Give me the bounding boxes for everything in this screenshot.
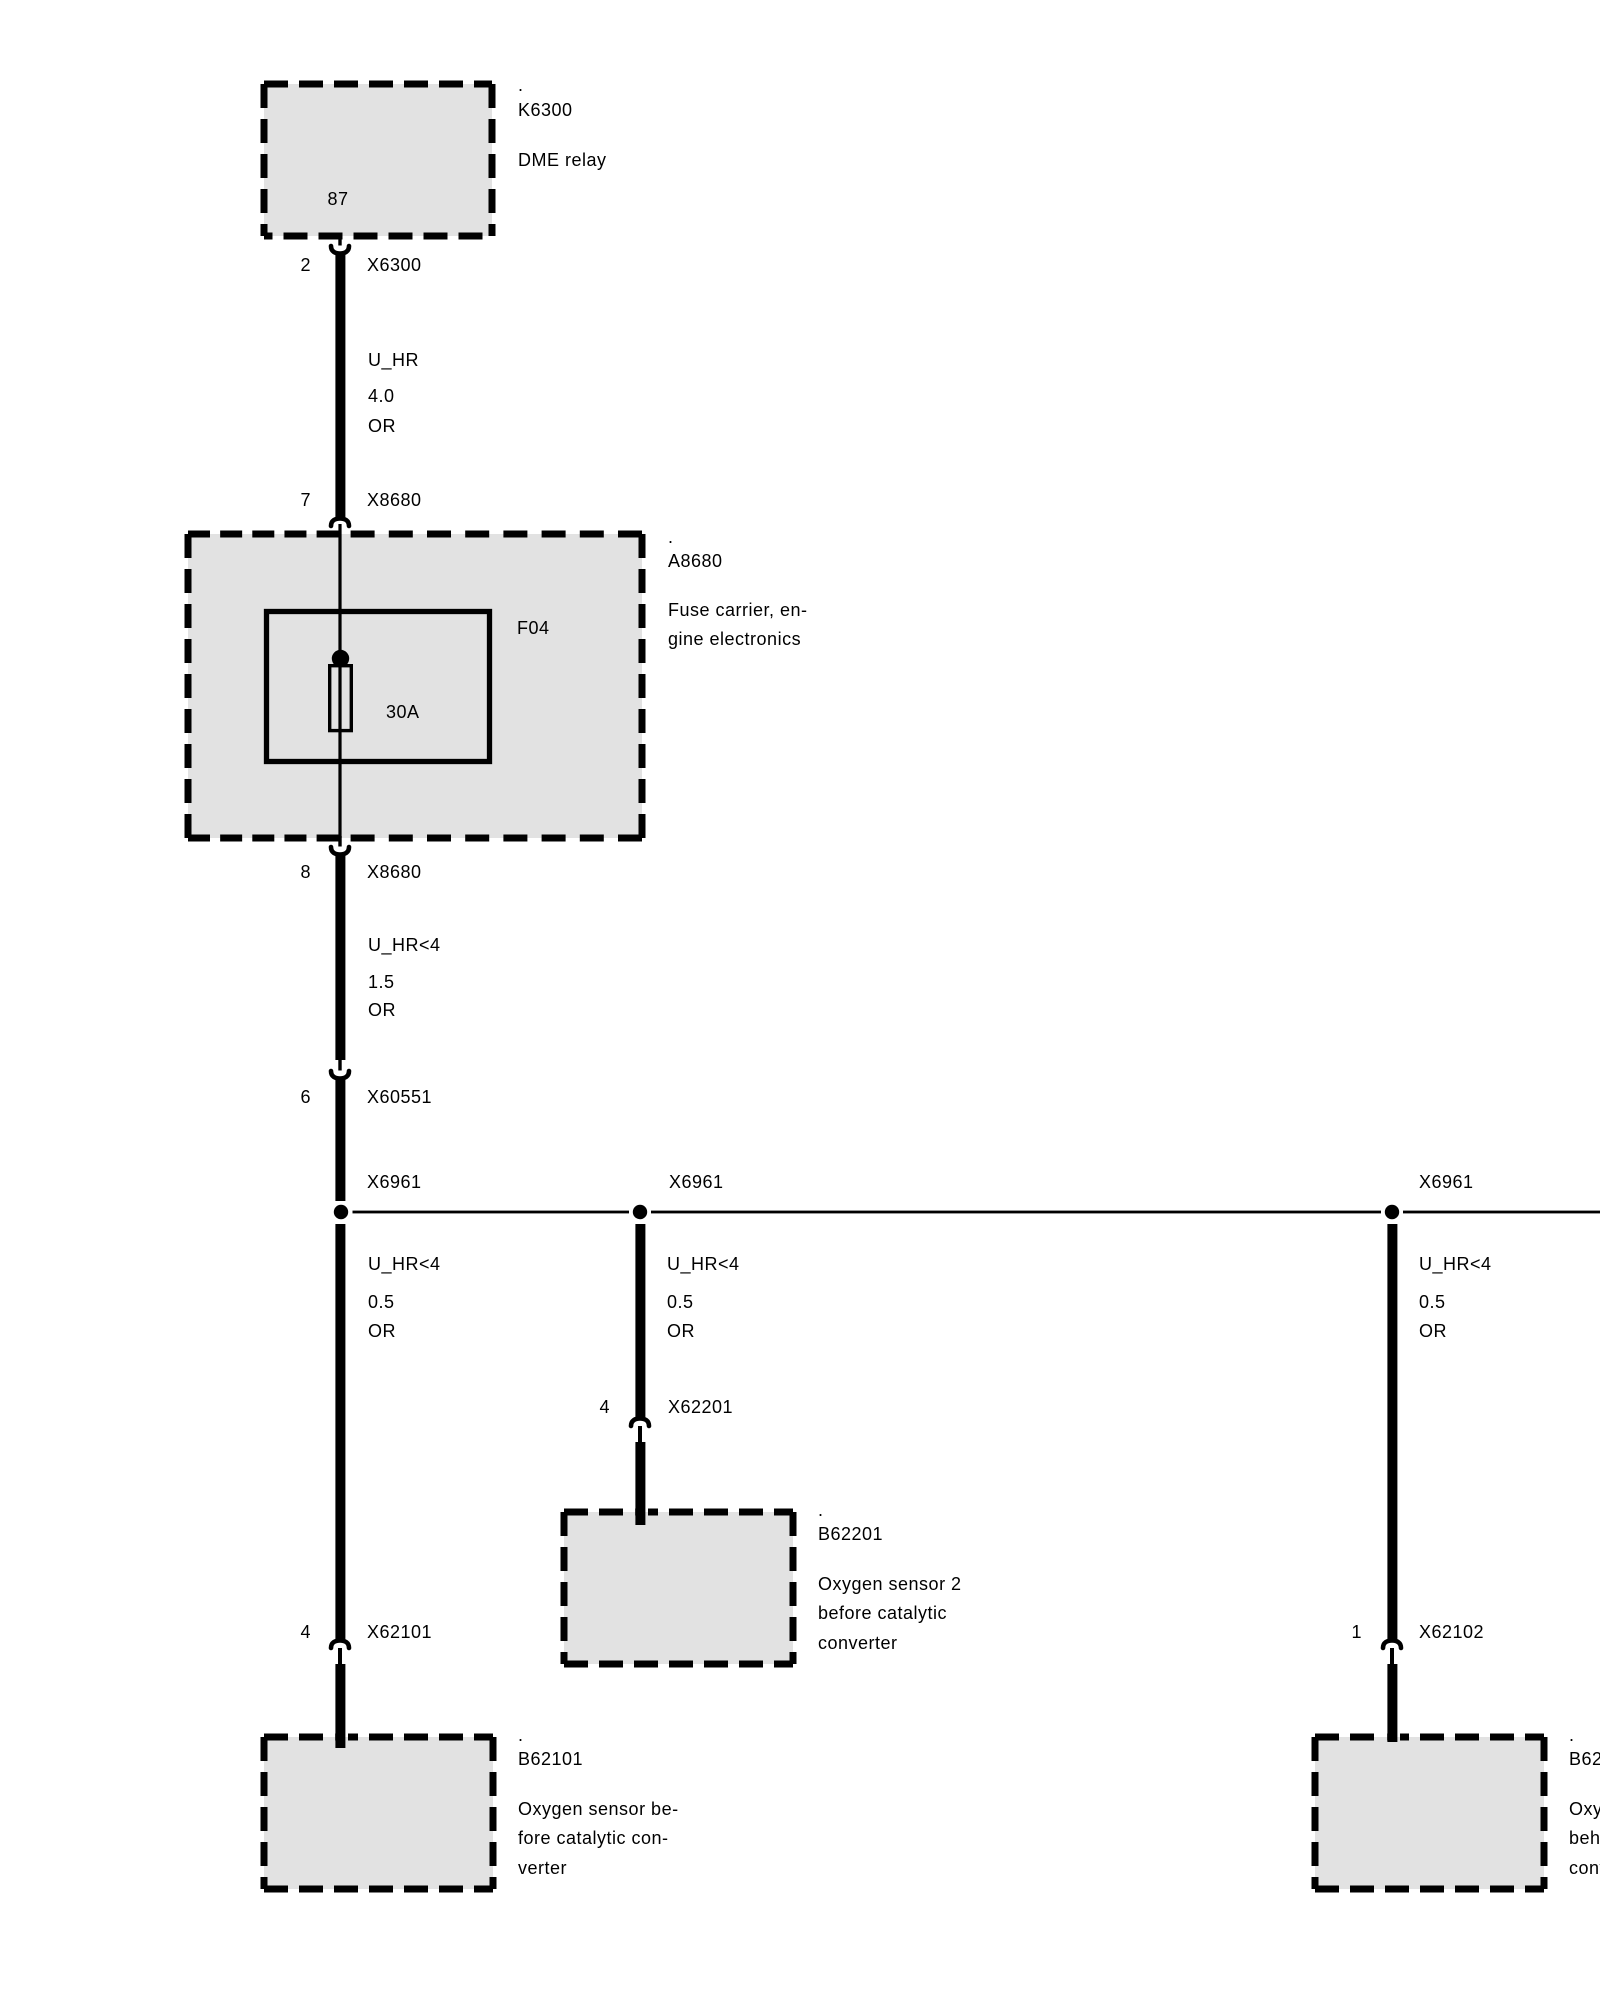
wire label right U_HR<4 [1419,1254,1492,1341]
border gap at X62201 wire [632,1509,635,1513]
svg-text:converter: converter [818,1633,898,1653]
B62102 label [1569,1725,1600,1878]
svg-text:87: 87 [327,189,348,209]
wire right branch U_HR<4 0.5 OR [1387,1224,1397,1641]
svg-text:X8680: X8680 [367,490,422,510]
fuse F04 element [330,650,352,731]
svg-text:30A: 30A [386,702,420,722]
connector X60551 pin 6 stub [338,1060,341,1071]
svg-text:gine electronics: gine electronics [668,629,801,649]
svg-text:B62201: B62201 [818,1524,883,1544]
connector X8680 pin 7 [331,519,349,527]
svg-text:4: 4 [300,1622,311,1642]
relay K6300 box [264,84,492,236]
wire label U_HR<4 [368,935,441,1020]
svg-text:X6961: X6961 [367,1172,422,1192]
border gap at X62102 wire [1384,1734,1387,1738]
wire stub into B62101 [335,1664,345,1748]
svg-text:X6961: X6961 [669,1172,724,1192]
wire stub into B62102 [1387,1664,1397,1742]
svg-text:before catalytic: before catalytic [818,1603,947,1623]
connector X6300 pin 2 [331,246,349,254]
connector X62102 neck [1390,1648,1394,1664]
svg-text:OR: OR [368,416,396,436]
svg-text:X6961: X6961 [1419,1172,1474,1192]
B62101 label [518,1725,679,1878]
wire U_HR 4.0 OR [335,253,345,519]
svg-text:behind catalytic: behind catalytic [1569,1828,1600,1848]
svg-text:.: . [518,1725,524,1745]
connector X6300 pin 2 stub [338,236,341,246]
svg-text:OR: OR [368,1000,396,1020]
wire label left U_HR<4 [368,1254,441,1341]
svg-text:U_HR<4: U_HR<4 [368,935,441,956]
connector X62101 pin 4 [331,1641,349,1649]
wire label middle U_HR<4 [667,1254,740,1341]
svg-text:Oxygen sensor: Oxygen sensor [1569,1799,1600,1819]
A8680 label [668,527,808,649]
svg-text:X6300: X6300 [367,255,422,275]
connector X8680 pin 8 stub [338,836,341,847]
wire bus X6961 horizontal segment 2 [651,1211,1381,1214]
svg-text:6: 6 [300,1087,311,1107]
svg-text:0.5: 0.5 [1419,1292,1446,1312]
connector X62102 pin 1 [1383,1641,1401,1649]
oxygen sensor B62201 box [564,1509,793,1665]
svg-text:X62102: X62102 [1419,1622,1484,1642]
svg-text:8: 8 [300,862,311,882]
oxygen sensor B62101 box [264,1734,493,1890]
svg-text:K6300: K6300 [518,100,573,120]
wire bus X6961 horizontal segment 1 [353,1211,630,1214]
svg-text:converter: converter [1569,1858,1600,1878]
svg-text:4.0: 4.0 [368,386,395,406]
node K6300 label [518,75,607,170]
svg-text:X62201: X62201 [668,1397,733,1417]
svg-text:B62102: B62102 [1569,1749,1600,1769]
svg-text:.: . [818,1500,824,1520]
svg-text:7: 7 [300,490,311,510]
svg-text:4: 4 [599,1397,610,1417]
svg-text:.: . [668,527,674,547]
wire thin through fuse [338,524,341,838]
svg-text:fore catalytic con-: fore catalytic con- [518,1828,669,1848]
node X6961 junction dot left [334,1205,348,1219]
svg-text:Oxygen sensor be-: Oxygen sensor be- [518,1799,679,1819]
svg-text:0.5: 0.5 [368,1292,395,1312]
svg-text:X8680: X8680 [367,862,422,882]
svg-text:B62101: B62101 [518,1749,583,1769]
oxygen sensor B62102 box [1315,1734,1544,1890]
svg-text:U_HR<4: U_HR<4 [1419,1254,1492,1275]
svg-text:Oxygen sensor 2: Oxygen sensor 2 [818,1574,962,1594]
svg-text:X62101: X62101 [367,1622,432,1642]
wire middle branch U_HR<4 0.5 OR [635,1224,645,1419]
svg-text:OR: OR [1419,1321,1447,1341]
node X6961 junction dot right [1385,1205,1399,1219]
fuse carrier A8680 box [188,534,642,838]
svg-text:1: 1 [1351,1622,1362,1642]
border gap at X62101 wire [332,1734,335,1738]
svg-text:.: . [518,75,524,95]
svg-text:U_HR<4: U_HR<4 [667,1254,740,1275]
svg-text:.: . [1569,1725,1575,1745]
svg-text:DME relay: DME relay [518,150,607,170]
svg-text:2: 2 [300,255,311,275]
wire bus X6961 horizontal segment 3 [1403,1211,1600,1214]
wire to node X6961 [335,1078,345,1201]
svg-text:OR: OR [368,1321,396,1341]
wire U_HR<4 1.5 OR [335,854,345,1060]
svg-text:A8680: A8680 [668,551,723,571]
wire label U_HR [368,350,419,436]
connector X62201 neck [638,1426,642,1442]
svg-text:U_HR<4: U_HR<4 [368,1254,441,1275]
svg-text:1.5: 1.5 [368,972,395,992]
wire stub into B62201 [635,1442,645,1525]
node X6961 junction dot middle [633,1205,647,1219]
connector X60551 pin 6 inline [331,1071,349,1079]
svg-text:X60551: X60551 [367,1087,432,1107]
svg-text:verter: verter [518,1858,567,1878]
svg-text:Fuse carrier, en-: Fuse carrier, en- [668,600,808,620]
wire left branch U_HR<4 0.5 OR [335,1224,345,1641]
svg-text:OR: OR [667,1321,695,1341]
connector X62101 neck [338,1648,342,1664]
F04 fuse holder box [267,612,490,762]
svg-text:U_HR: U_HR [368,350,419,371]
B62201 label [818,1500,962,1653]
connector X62201 pin 4 [631,1419,649,1427]
svg-text:0.5: 0.5 [667,1292,694,1312]
svg-text:F04: F04 [517,618,550,638]
connector X8680 pin 8 [331,847,349,855]
